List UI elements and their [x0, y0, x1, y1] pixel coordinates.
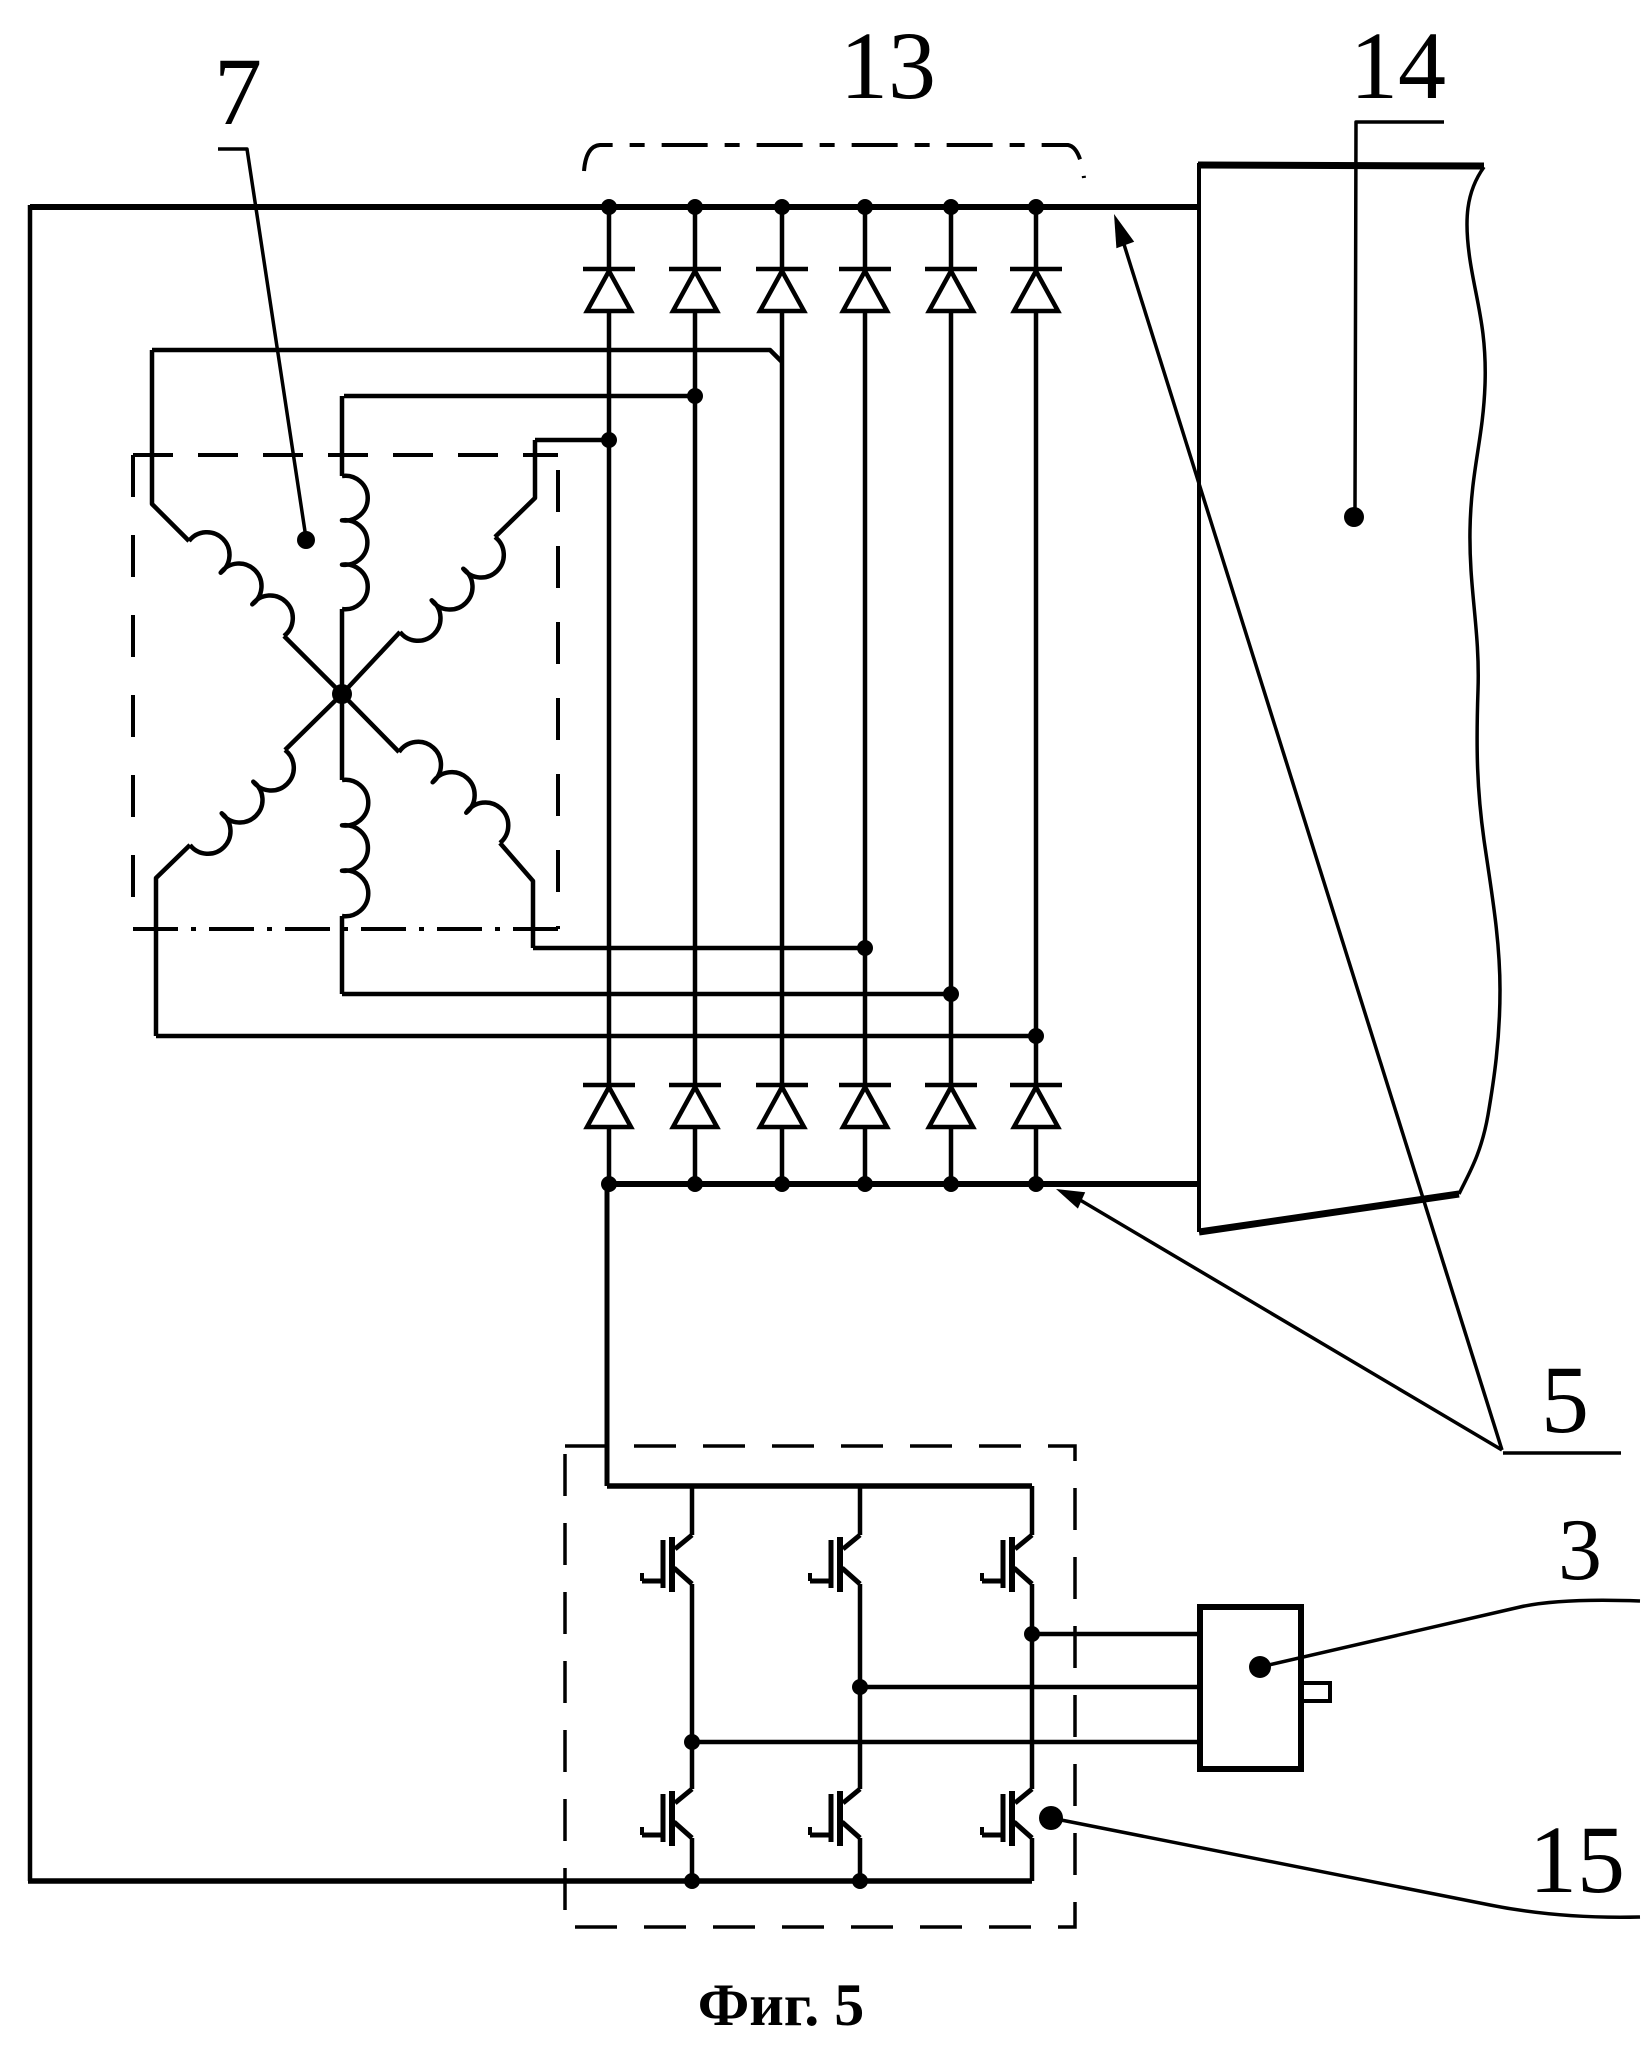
bracket for label 13 (dash-dot) [584, 145, 1084, 178]
wire phase column 6 middle segment [1034, 311, 1039, 1085]
node junction column 2 on bottom bus [687, 1176, 703, 1192]
diode VD1' (lower row) [583, 1083, 635, 1088]
wire collector lead of VT5 [858, 1687, 863, 1789]
wire tap from L6 to column 6 [156, 1034, 1036, 1039]
node phase tap junction at column 1 of inverter [684, 1734, 700, 1750]
wire tap from L5 to column 4 [533, 946, 865, 951]
diode VD1 (upper row) [583, 267, 635, 272]
node reference dot inside block 3 [1249, 1656, 1271, 1678]
wire collector lead of VT4 [690, 1742, 695, 1789]
wire tap from L3 to column 3 [152, 350, 782, 362]
winding coil L1 (north arm of armature winding 7) [340, 609, 345, 694]
node junction column 6 on top bus [1028, 199, 1044, 215]
block 14 bottom edge [1199, 1194, 1459, 1232]
diode VD4' (lower row) [839, 1083, 891, 1088]
node junction column 4 on top bus [857, 199, 873, 215]
wire phase column 4 middle segment [863, 311, 868, 1085]
wire collector lead of VT1 [690, 1486, 695, 1535]
wire tap from L1 to column 2 [344, 394, 695, 399]
wire DC feed from rectifier to inverter [605, 1184, 610, 1486]
block 14 left edge [1197, 163, 1201, 1232]
diode VD2 (upper row) [669, 267, 721, 272]
stator boundary of machine (dash-dot rectangle) [133, 453, 558, 457]
wire phase lead from inverter leg 2 to regulator 3 [860, 1685, 1200, 1690]
node phase tap junction at column 3 of inverter [1024, 1626, 1040, 1642]
transistor VT6 (lower IGBT) [1015, 1789, 1032, 1803]
node junction L6 tap on column 6 [1028, 1028, 1044, 1044]
wire phase column 2 lower segment [693, 1127, 698, 1184]
block 14 torn right edge [1459, 167, 1500, 1194]
svg-text:5: 5 [1541, 1346, 1589, 1453]
winding coil L3 (north-west arm of winding 7) [284, 636, 342, 694]
wire phase column 3 upper segment [780, 207, 785, 269]
wire phase column 3 middle segment [780, 311, 785, 1085]
transistor VT4 (lower IGBT) [675, 1789, 692, 1803]
wire bottom DC bus of rectifier [607, 1181, 1199, 1187]
wire phase column 5 upper segment [949, 207, 954, 269]
svg-text:Фиг. 5: Фиг. 5 [698, 1972, 865, 2038]
wire collector lead of VT6 [1030, 1634, 1035, 1789]
node junction L5 tap on column 4 [857, 940, 873, 956]
wire emitter of VT3 down to phase tap [1030, 1584, 1035, 1634]
node leader dot for label 14 [1344, 507, 1364, 527]
node phase tap junction at column 2 of inverter [852, 1679, 868, 1695]
wire left outer conductor [28, 205, 33, 1881]
node junction column 5 on top bus [943, 199, 959, 215]
node junction column 4 on bottom bus [857, 1176, 873, 1192]
node junction column 6 on bottom bus [1028, 1176, 1044, 1192]
wire phase column 1 upper segment [607, 207, 612, 269]
transistor VT1 (upper IGBT) [675, 1535, 692, 1549]
wire phase column 2 middle segment [693, 311, 698, 1085]
wire phase column 4 upper segment [863, 207, 868, 269]
wire phase column 4 lower segment [863, 1127, 868, 1184]
wire collector lead of VT3 [1030, 1486, 1035, 1535]
node junction column 1 on top bus [601, 199, 617, 215]
regulator block 3 [1200, 1607, 1301, 1769]
node junction column 3 on bottom bus [774, 1176, 790, 1192]
winding coil L4 (north-east arm of winding 7) [342, 632, 400, 694]
node emitter junction VT5 on bottom rail [852, 1873, 868, 1889]
node leader dot for label 7 [297, 531, 315, 549]
node star point of winding 7 [332, 684, 352, 704]
node junction L1 tap on column 2 [687, 388, 703, 404]
leader line from label 5 to top bus [1122, 238, 1502, 1450]
diode VD6' (lower row) [1010, 1083, 1062, 1088]
svg-text:14: 14 [1350, 12, 1446, 119]
leader line for label 7 [218, 149, 306, 538]
wire bottom return rail to inverter [28, 1878, 1032, 1884]
leader line for label 14 [1355, 122, 1444, 510]
diode VD4 (upper row) [839, 267, 891, 272]
wire phase lead from inverter leg 1 to regulator 3 [692, 1740, 1200, 1745]
wire emitter of VT4 to bottom rail [690, 1838, 695, 1881]
wire tap from L2 to column 5 [342, 992, 951, 997]
node junction column 1 on bottom bus [601, 1176, 617, 1192]
wire phase column 1 middle segment [607, 311, 612, 1085]
wire phase column 6 lower segment [1034, 1127, 1039, 1184]
node junction column 2 on top bus [687, 199, 703, 215]
wire tap from L4 to column 1 [535, 438, 609, 443]
node junction column 5 on bottom bus [943, 1176, 959, 1192]
winding coil L6 (south-west arm of winding 7) [285, 694, 342, 750]
node junction column 3 on top bus [774, 199, 790, 215]
node junction L2 tap on column 5 [943, 986, 959, 1002]
wire phase lead from inverter leg 3 to regulator 3 [1032, 1632, 1200, 1637]
diode VD5' (lower row) [925, 1083, 977, 1088]
leader line from label 5 to bottom bus [1075, 1197, 1502, 1450]
diode VD5 (upper row) [925, 267, 977, 272]
regulator block 3 shaft stub [1301, 1683, 1330, 1701]
winding coil L5 (south-east arm of winding 7) [342, 694, 399, 752]
inverter block 15 boundary (dashed box) [565, 1446, 1075, 1927]
winding coil L2 (south arm of winding 7) [340, 694, 345, 780]
wire collector lead of VT2 [858, 1486, 863, 1535]
svg-text:15: 15 [1529, 1806, 1625, 1913]
leader line for label 15 [1051, 1818, 1640, 1917]
wire phase column 6 upper segment [1034, 207, 1039, 269]
transistor VT5 (lower IGBT) [843, 1789, 860, 1803]
svg-text:3: 3 [1558, 1502, 1602, 1599]
leader line for label 3 [1260, 1600, 1640, 1667]
transistor VT2 (upper IGBT) [843, 1535, 860, 1549]
wire inverter top rail [607, 1483, 1032, 1489]
node junction L4 tap on column 1 [601, 432, 617, 448]
wire emitter of VT2 down to phase tap [858, 1584, 863, 1687]
wire emitter of VT5 to bottom rail [858, 1838, 863, 1881]
wire top DC bus (positive rail) [30, 204, 1199, 210]
diode VD2' (lower row) [669, 1083, 721, 1088]
arrowhead on top bus for label 5 [1114, 214, 1134, 248]
wire phase column 3 lower segment [780, 1127, 785, 1184]
node emitter junction VT4 on bottom rail [684, 1873, 700, 1889]
transistor VT3 (upper IGBT) [1015, 1535, 1032, 1549]
label 5 reference underline [1503, 1451, 1621, 1455]
wire emitter of VT6 to bottom rail [1030, 1838, 1035, 1881]
svg-text:7: 7 [214, 38, 262, 145]
svg-text:13: 13 [840, 12, 936, 119]
diode VD6 (upper row) [1010, 267, 1062, 272]
diode VD3 (upper row) [756, 267, 808, 272]
wire emitter of VT1 down to phase tap [690, 1584, 695, 1742]
diode VD3' (lower row) [756, 1083, 808, 1088]
wire phase column 2 upper segment [693, 207, 698, 269]
wire phase column 5 lower segment [949, 1127, 954, 1184]
wire phase column 1 lower segment [607, 1127, 612, 1184]
arrowhead on bottom bus for label 5 [1056, 1189, 1085, 1209]
block 14 top edge [1198, 165, 1484, 166]
node leader dot for label 15 [1039, 1806, 1063, 1830]
wire phase column 5 middle segment [949, 311, 954, 1085]
